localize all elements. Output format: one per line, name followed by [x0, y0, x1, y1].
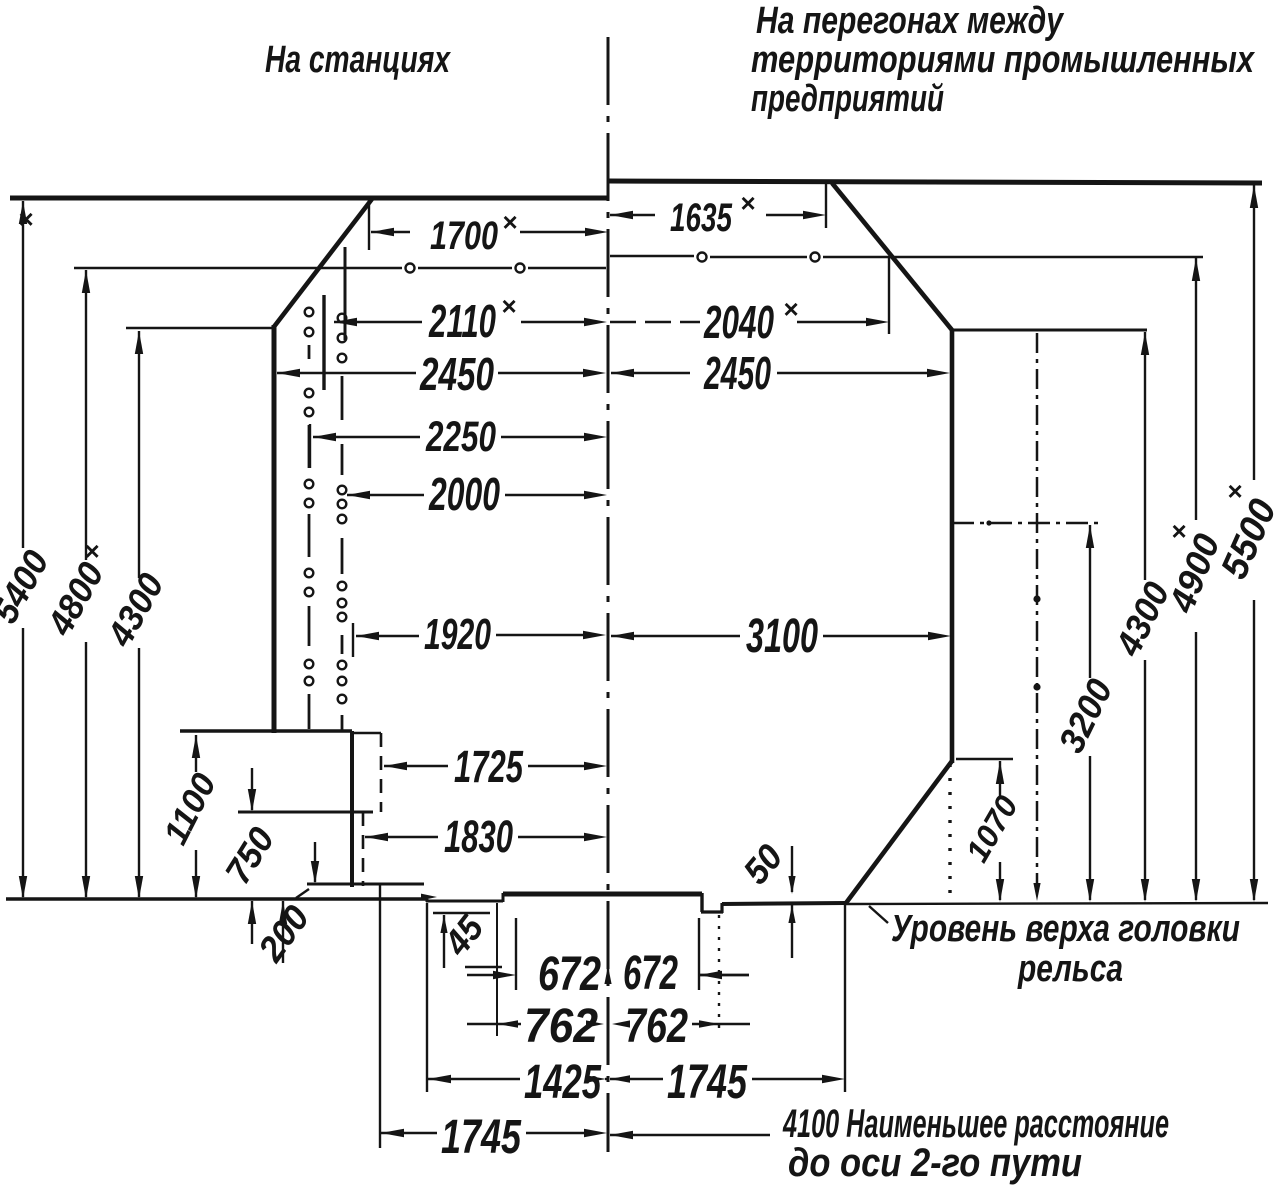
svg-text:×: ×	[502, 207, 517, 237]
dim 762 left line	[467, 1020, 521, 1028]
dim 1745 right extension	[844, 901, 846, 1092]
svg-text:2110: 2110	[428, 295, 496, 347]
dim 2000 text	[428, 468, 500, 520]
dim 1725 line	[384, 762, 607, 770]
dim 1100 line	[192, 735, 200, 899]
dim 200 leader tick	[296, 889, 309, 898]
svg-text:предприятий: предприятий	[751, 78, 944, 120]
dim 45 line	[433, 913, 502, 968]
dim 1070 line	[996, 761, 1004, 902]
dim 50 line	[788, 846, 795, 958]
dashed line 1830	[362, 812, 365, 886]
dim 1100 label	[156, 767, 223, 850]
dim 672 right line	[699, 971, 749, 979]
dim 1745 right line	[610, 1075, 845, 1083]
svg-text:762: 762	[625, 1000, 688, 1053]
svg-text:×: ×	[18, 204, 33, 234]
svg-text:672: 672	[538, 948, 601, 1001]
outline top left (station gauge top 5400)	[10, 196, 608, 201]
dim 1920 text	[424, 610, 491, 659]
dim 672 axis arrow	[604, 966, 611, 985]
dash-dot vertical x1037	[1033, 333, 1040, 901]
dim 1700 line	[369, 200, 608, 250]
solid stub x345	[344, 247, 347, 340]
title right line2	[751, 39, 1256, 81]
svg-text:На перегонах между: На перегонах между	[756, 0, 1064, 42]
svg-text:×: ×	[783, 294, 798, 324]
outline right top diagonal	[832, 183, 952, 330]
dim 1745 bottom extension	[379, 885, 381, 1148]
dim 2000 line	[347, 491, 607, 499]
dim 5500 line	[1250, 185, 1258, 902]
dim 672 extensions	[516, 918, 699, 990]
dim 4300 right line	[1141, 332, 1149, 902]
rail head level line right	[846, 903, 1268, 904]
dim 1830 line	[365, 833, 607, 841]
svg-text:3100: 3100	[746, 610, 818, 663]
dim 45 label	[435, 907, 492, 964]
outline top right (haul gauge top 5500)	[608, 181, 1262, 183]
dim 750 line	[248, 768, 256, 944]
svg-text:×: ×	[84, 536, 99, 566]
dim 1425 text	[524, 1056, 602, 1109]
pantograph line left y268	[74, 264, 606, 273]
svg-text:1745: 1745	[441, 1111, 522, 1164]
dim 2040 text	[703, 294, 798, 348]
dim 1425 extension	[426, 903, 428, 1092]
dim 750 label	[217, 820, 283, 891]
dim 1725 text	[454, 741, 524, 792]
dim 1745 bottom text	[441, 1111, 522, 1164]
dim 1635 line	[610, 183, 826, 228]
note 4100 line2	[788, 1141, 1082, 1185]
bottom right line	[722, 903, 846, 904]
svg-text:1725: 1725	[454, 741, 524, 792]
svg-text:до оси 2-го пути: до оси 2-го пути	[788, 1141, 1082, 1185]
extension line y328 to 4300 dim	[126, 327, 275, 329]
dim 4100 leader line	[610, 1131, 770, 1139]
outline right corner extension	[952, 329, 1147, 332]
dotted outline column 2250	[305, 308, 314, 729]
dim 762 extensions	[497, 903, 719, 1036]
dim 2450 left line	[277, 369, 606, 377]
dim 1070 label	[959, 789, 1025, 868]
title right line3	[751, 78, 944, 120]
note rail level line1	[891, 908, 1240, 950]
dim 2450 right text	[703, 347, 771, 399]
right rail notch	[701, 893, 723, 913]
bottom center line	[503, 892, 702, 897]
svg-text:×: ×	[1227, 476, 1242, 506]
svg-text:1635: 1635	[670, 196, 733, 240]
dim 1830 text	[444, 811, 513, 862]
dim 1425 line	[428, 1075, 608, 1083]
title left: Na stantsiyakh	[265, 39, 451, 81]
dim 672 left line	[467, 971, 516, 979]
dim 3100 text	[746, 610, 818, 663]
outline right vertical wall	[950, 329, 955, 763]
outline right lower diagonal	[846, 761, 952, 903]
dim 672 right text	[623, 947, 678, 1000]
dim 3100 line	[611, 632, 951, 640]
svg-text:2450: 2450	[703, 347, 771, 399]
svg-text:672: 672	[623, 947, 678, 1000]
platform 1100 top line	[180, 729, 352, 732]
dim 50 label	[735, 836, 791, 891]
dim 2250 text	[425, 413, 496, 461]
left rail notch	[426, 893, 503, 902]
dim 2040 line	[610, 258, 889, 334]
pantograph line right y256	[610, 253, 1203, 262]
dim 2450 left text	[419, 348, 494, 400]
dashed corner 1725	[352, 733, 381, 812]
note rail level line2	[1017, 948, 1123, 990]
dim 4900 label	[1160, 516, 1227, 619]
svg-text:территориями промышленных: территориями промышленных	[751, 39, 1256, 81]
svg-text:На станциях: На станциях	[265, 39, 451, 81]
rail head baseline left	[6, 897, 427, 900]
dim 672 left text	[538, 948, 601, 1001]
dim 2450 right line	[611, 369, 950, 377]
baseline end arrow	[421, 894, 437, 901]
dim 5400 asterisk	[18, 204, 33, 234]
dim 200 label	[249, 898, 317, 970]
outline step vertical x352	[350, 731, 354, 887]
dim 4300 left line	[135, 331, 143, 899]
outline left top diagonal	[273, 199, 372, 328]
dim 762 right text	[625, 1000, 688, 1053]
dim 2110 line	[334, 318, 607, 326]
svg-text:2040: 2040	[703, 296, 774, 348]
note rail level leader	[869, 906, 888, 923]
svg-text:×: ×	[740, 188, 755, 218]
dim 1635 text	[670, 188, 755, 240]
dim 5400 line	[19, 201, 27, 899]
svg-text:1920: 1920	[424, 610, 491, 659]
dim 5400 label	[0, 543, 57, 629]
dim 2250 line	[310, 424, 607, 468]
dim 762 left text	[524, 1000, 598, 1053]
dim 3200 line	[1086, 525, 1094, 902]
dim 3200 label	[1050, 673, 1120, 759]
svg-text:2450: 2450	[419, 348, 494, 400]
svg-text:×: ×	[501, 291, 516, 321]
svg-text:1700: 1700	[430, 214, 498, 258]
solid stub x324	[322, 295, 325, 390]
svg-text:2250: 2250	[425, 413, 496, 461]
dim 1700 text	[430, 207, 517, 258]
dim 4800 line	[82, 270, 90, 899]
track axis centerline	[607, 37, 610, 1152]
svg-text:1745: 1745	[667, 1056, 748, 1109]
dim 4800 label	[39, 536, 112, 643]
tick line y759	[956, 758, 1013, 761]
svg-text:×: ×	[1171, 516, 1186, 546]
dim 4300 left label	[99, 566, 172, 653]
dim 4300 right label	[1107, 576, 1178, 663]
platform 750 line	[238, 811, 373, 814]
dim 200 line	[279, 842, 319, 963]
title right line1	[756, 0, 1064, 42]
svg-text:4100 Наименьшее расстояние: 4100 Наименьшее расстояние	[782, 1102, 1169, 1146]
dim 5500 label	[1213, 476, 1275, 585]
svg-text:рельса: рельса	[1017, 948, 1123, 990]
dim 1920 line	[353, 623, 606, 657]
dotted corner alternate x950	[948, 764, 951, 900]
svg-text:1830: 1830	[444, 811, 513, 862]
dim 762 axis arrows	[586, 1020, 630, 1027]
dash-dot level line y523	[952, 520, 1104, 525]
dim 2110 text	[428, 291, 516, 347]
svg-text:2000: 2000	[428, 468, 500, 520]
dim 1745 bottom line	[381, 1129, 607, 1137]
dotted outline column 2000	[338, 314, 347, 730]
outline left vertical wall	[272, 325, 277, 733]
dim 762 right line	[692, 1020, 750, 1028]
platform 200 line	[307, 883, 424, 886]
dim 4900 line	[1192, 258, 1200, 902]
note 4100 line1	[782, 1102, 1169, 1146]
svg-text:1425: 1425	[524, 1056, 602, 1109]
svg-text:Уровень верха головки: Уровень верха головки	[891, 908, 1240, 950]
dim 1745 right text	[667, 1056, 748, 1109]
